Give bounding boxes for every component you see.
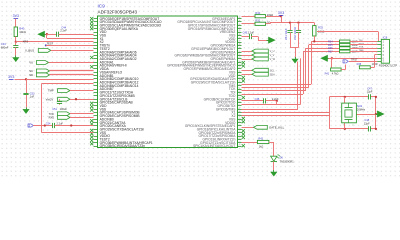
wire crystal pin2 stub (344, 123, 346, 129)
C41 rotated label (284, 28, 288, 40)
junction crystal bottom right (375, 128, 377, 130)
resistor R30 (255, 15, 266, 18)
junction C44 row (46, 33, 48, 35)
C47 name (367, 86, 372, 90)
wire IC to R42 (242, 142, 258, 144)
wire JTAG4 to resistor (303, 51, 340, 53)
wire 3V3 feed to connector (317, 32, 379, 42)
wire XRS row to IC (16, 41, 94, 43)
wire group box top (41, 83, 93, 85)
crystal SG9 (342, 103, 357, 127)
R32 value 0R (267, 21, 271, 25)
wire R37 to connector (350, 51, 377, 53)
wire JTAG2 horizontal (242, 87, 309, 89)
svg-text:49: 49 (238, 47, 240, 49)
wire R34 to connector (350, 41, 377, 43)
junction C54 right (70, 124, 72, 126)
IC9 left pin stubs (94, 19, 98, 147)
net label Vin/2V text (46, 97, 54, 101)
net label SC text (29, 69, 33, 73)
net flag Vin/2V (58, 97, 70, 101)
svg-text:Vin/2V: Vin/2V (46, 97, 54, 101)
capacitor C43 (13, 46, 18, 48)
ground arrow crystal (375, 111, 384, 117)
wire junction to C44 (47, 34, 57, 36)
net label RXD text (49, 116, 55, 120)
C51 name (52, 107, 57, 111)
junction C54 left (44, 124, 46, 126)
net label V_W (270, 58, 276, 61)
wire JTAG2 to resistor (309, 44, 340, 46)
wire IC to C45 (242, 36, 250, 38)
R40 name (19, 26, 25, 30)
net flag SCL (252, 68, 268, 72)
svg-text:3V3: 3V3 (13, 14, 19, 18)
C52 name (30, 92, 35, 96)
svg-text:74: 74 (238, 131, 240, 133)
svg-text:72: 72 (238, 125, 240, 127)
wire EMU0 vertical (300, 58, 302, 104)
resistor R38 (359, 66, 370, 69)
resistor R33 (313, 26, 316, 36)
connector IC8 body (381, 39, 389, 63)
svg-text:70: 70 (238, 118, 240, 120)
wire C42 down (298, 32, 300, 47)
svg-text:64: 64 (238, 98, 240, 100)
wire rail to R33 (314, 23, 316, 26)
supply +3V3 top-left (13, 14, 19, 18)
wire X2 to crystal box (242, 115, 330, 117)
wire crystal box left (329, 97, 331, 129)
capacitor C47 (369, 94, 371, 99)
junction crystal bottom stub (344, 128, 346, 130)
svg-text:SPICLKA/LINTXA/XCLKOUT: SPICLKA/LINTXA/XCLKOUT (193, 144, 235, 148)
wire IC to flag V_U (242, 51, 252, 53)
IC9 right pin stubs (238, 19, 242, 147)
net label SCL (270, 69, 275, 72)
wire LED to ground (273, 161, 275, 170)
wire IC to R30 (242, 16, 256, 18)
C44 value 2.2nF (60, 28, 67, 32)
net flag TMP (58, 89, 70, 93)
svg-text:78: 78 (238, 145, 240, 147)
wire IC to flag SCL (242, 70, 252, 72)
R35 value 100R (352, 44, 358, 47)
R42 value 1k (259, 145, 264, 148)
svg-text:55: 55 (238, 68, 240, 70)
capacitor C54 (53, 123, 55, 128)
C54 value 2.2uF (57, 123, 64, 126)
svg-text:2.2uF: 2.2uF (248, 32, 255, 35)
wire gnd to junction (46, 34, 47, 36)
svg-text:42: 42 (238, 24, 240, 26)
junction rail C42 (297, 21, 299, 23)
capacitor C51 (57, 102, 62, 104)
svg-text:60: 60 (238, 84, 240, 86)
wire gnd row to connector (329, 58, 378, 60)
svg-text:10kΩ: 10kΩ (19, 30, 26, 34)
capacitor C43 name (1, 42, 6, 46)
wire rail to C42 (298, 23, 300, 31)
svg-text:V_U: V_U (270, 50, 275, 53)
net flag VU (36, 61, 48, 65)
wire IC to flag SDA (242, 74, 252, 76)
wire crystal box top right (371, 96, 376, 98)
svg-text:C41 10uF: C41 10uF (284, 28, 288, 40)
no-connect marks left pins (90, 17, 93, 145)
SG9 value 20MHz (357, 107, 366, 111)
junction crystal top stub (344, 96, 346, 98)
R30 value 10k (267, 13, 273, 17)
wire EMU0 horizontal (242, 104, 301, 106)
svg-text:XRS: XRS (23, 39, 29, 43)
svg-text:SD: SD (29, 73, 33, 77)
resistor R36 (340, 47, 351, 50)
wire R35 to connector (350, 44, 377, 46)
junction crystal top right (375, 96, 377, 98)
wire C54 to IC (55, 125, 94, 127)
svg-text:R30: R30 (255, 11, 260, 15)
C46 name (255, 97, 260, 101)
svg-text:R32: R32 (255, 19, 260, 23)
wire IC to R32 (242, 23, 256, 25)
wire TRST to connector (349, 61, 377, 63)
wire EMU1 horizontal (242, 109, 298, 111)
svg-text:V_BUS: V_BUS (25, 48, 34, 52)
svg-text:54: 54 (238, 64, 240, 66)
resistor R32 (255, 22, 266, 25)
wire C44 to IC (59, 34, 94, 36)
wire IC to flag V_W (242, 59, 252, 61)
svg-text:V_W: V_W (270, 58, 276, 61)
C42 rotated label (293, 26, 297, 40)
svg-text:4.7kΩ: 4.7kΩ (332, 73, 339, 76)
wire IC to flag V_V (242, 55, 252, 57)
svg-text:50: 50 (238, 51, 240, 53)
svg-text:58: 58 (238, 78, 240, 80)
svg-text:68: 68 (238, 111, 240, 113)
wire JTAG4 horizontal (242, 94, 304, 96)
no-connect marks right pins (242, 61, 245, 147)
svg-text:GPIO35/SCIRXDA/SDAA/TZ3n: GPIO35/SCIRXDA/SDAA/TZ3n (100, 144, 146, 148)
supply +3V3 mid-left (8, 75, 14, 79)
svg-text:56: 56 (238, 71, 240, 73)
wire EMU1 vertical (297, 62, 299, 110)
microcontroller IC9 body (98, 16, 238, 148)
svg-text:46: 46 (238, 37, 240, 39)
wire JTAG1 to resistor (311, 41, 339, 43)
wire SD to IC (50, 74, 94, 76)
resistor R37 (340, 50, 351, 53)
C51 value 100uF (60, 107, 68, 111)
wire caps to ground (290, 48, 299, 58)
svg-text:TMP: TMP (48, 89, 54, 93)
net label GATE_KILL (269, 126, 285, 130)
wire R32 up to rail (266, 23, 271, 24)
svg-text:51: 51 (238, 54, 240, 56)
svg-text:SCL: SCL (270, 69, 275, 72)
junction crystal mid right (375, 113, 377, 115)
svg-text:77: 77 (238, 141, 240, 143)
wire 3V3 node down to rail (281, 16, 283, 22)
wire Vin2V stub to C51 (59, 99, 61, 105)
C52 value 1uF (30, 95, 35, 99)
wire JTAG3 to resistor (306, 48, 340, 50)
wire X1 to crystal box (242, 112, 330, 114)
wire JTAG1 horizontal (242, 84, 312, 86)
IC9 reference designator (98, 3, 106, 8)
svg-text:TN0209GR1: TN0209GR1 (280, 161, 295, 164)
net label V_BUS text (25, 48, 34, 52)
ground arrow right of C45 (267, 37, 276, 43)
wire RXD to IC (70, 117, 94, 119)
junction C46 (276, 100, 278, 102)
wire JTAG3 vertical (305, 48, 307, 91)
port flag 2 TRST (343, 60, 348, 64)
resistor R40 (14, 27, 17, 37)
wire JTAG3 horizontal (242, 90, 306, 92)
svg-text:63: 63 (238, 94, 240, 96)
svg-text:75: 75 (238, 135, 240, 137)
capacitor C46 (264, 98, 266, 103)
wire second reset row to IC (47, 38, 94, 40)
svg-text:ADF32F005GPB43: ADF32F005GPB43 (98, 9, 138, 14)
svg-text:62: 62 (238, 91, 240, 93)
wire crystal pin1 stub (344, 97, 346, 103)
net label TDO (359, 43, 364, 45)
net flag SDA (252, 72, 268, 76)
net label VU text (29, 61, 33, 65)
wire Vin2V to IC (70, 99, 94, 101)
net label V_U (270, 50, 275, 53)
svg-text:R38: R38 (357, 63, 362, 66)
svg-text:R42: R42 (258, 138, 263, 141)
R34 name (328, 40, 333, 43)
net label SD text (29, 73, 33, 77)
svg-text:71: 71 (238, 121, 240, 123)
wire TXD to IC (70, 113, 94, 115)
svg-text:GPIO29/SCITXDA/SCLA/TZ3n: GPIO29/SCITXDA/SCLA/TZ3n (100, 127, 145, 131)
junction R33 row (313, 40, 315, 42)
wire crystal out right (356, 114, 376, 116)
wire R38 to connector (370, 55, 377, 68)
net label TEST (47, 42, 54, 46)
wire IC to GATE_KILL flag (242, 127, 254, 129)
C46 value 2.2uF (272, 97, 279, 101)
svg-text:48: 48 (238, 44, 240, 46)
R36 value 100R (352, 47, 358, 50)
svg-text:C51: C51 (52, 107, 57, 111)
C47 value 12pF (367, 90, 373, 94)
wire 3V3 to R40 (15, 19, 17, 27)
R38 value 100R (372, 63, 378, 66)
wire C45 to ground arrow (251, 37, 268, 41)
wire crystal box top (329, 96, 368, 98)
svg-text:41: 41 (238, 21, 240, 23)
IC8 pin stubs (377, 42, 381, 62)
C48 value 12pF (364, 121, 370, 125)
R41 value 4.7k (332, 73, 339, 76)
R41 name (325, 73, 330, 76)
svg-text:61: 61 (238, 88, 240, 90)
wire VDD row to IC (26, 79, 94, 81)
svg-text:73: 73 (238, 128, 240, 130)
net flag V_U (252, 49, 268, 53)
svg-text:IC8: IC8 (383, 35, 388, 39)
wire group box left (41, 84, 43, 132)
svg-text:43: 43 (238, 27, 240, 29)
R42 name (258, 138, 263, 141)
wire R41 right up (341, 65, 345, 70)
C43 value 680nF (1, 45, 9, 49)
IC8 pin numbers (383, 42, 385, 64)
IC9 right pin numbers (238, 17, 240, 146)
svg-text:RXD: RXD (49, 116, 55, 120)
wire R30 to 3V3 node (266, 16, 282, 18)
svg-text:GPIO7/EPWM4B/SCIRXDA/ECAP2: GPIO7/EPWM4B/SCIRXDA/ECAP2 (184, 67, 236, 71)
resistor R35 (340, 43, 351, 46)
net label TMP text (48, 89, 54, 93)
svg-text:R37: R37 (328, 50, 333, 53)
net label TDI (359, 40, 363, 42)
R30 name (255, 11, 260, 15)
ground arrow TRST row (321, 55, 331, 61)
svg-text:R33: R33 (318, 26, 323, 30)
wire C46 junction down (276, 101, 278, 105)
capacitor C48 (369, 126, 371, 131)
R33 value 10k (318, 30, 324, 34)
wire TMP to IC (70, 90, 94, 92)
IC8 value FID04DCTLCTP (379, 65, 398, 68)
wire group box bottom (41, 132, 93, 134)
wire junction down to C52 (26, 79, 28, 93)
C44 name (61, 26, 66, 30)
ground below LED (271, 170, 277, 176)
wire SC to IC (50, 70, 94, 72)
net flag GATE_KILL (254, 125, 268, 129)
R34 value 100R (352, 40, 358, 43)
net label SDA (270, 73, 275, 76)
svg-text:C54: C54 (46, 123, 51, 126)
C45 name (243, 32, 248, 35)
C45 value 2.2uF (248, 32, 255, 35)
wire 3V3 rail (270, 22, 314, 24)
svg-text:12pF: 12pF (367, 90, 373, 94)
svg-text:47: 47 (238, 41, 240, 43)
IC9 left pin names (100, 17, 162, 148)
wire junction down to R41 (331, 58, 333, 69)
net flag TXD (58, 112, 71, 116)
node TEST diamond (45, 44, 47, 46)
net label V_V (270, 54, 275, 57)
svg-text:2.2nF: 2.2nF (60, 28, 67, 32)
svg-text:40: 40 (238, 17, 240, 19)
capacitor C42 (296, 31, 301, 33)
capacitor C41 (287, 31, 292, 33)
D6 name (280, 156, 284, 159)
IC9 value ADF32F005GPB43 (98, 9, 138, 14)
R32 name (255, 19, 260, 23)
svg-text:76: 76 (238, 138, 240, 140)
junction R30 3V3 (280, 15, 282, 17)
net flag SC (36, 69, 49, 73)
wire IC to C46 (242, 100, 264, 102)
ground below C41 C42 (292, 57, 298, 63)
svg-text:680nF: 680nF (1, 45, 9, 49)
svg-text:3V3: 3V3 (8, 75, 14, 79)
R35 name (328, 44, 333, 47)
wire C52 to ground (26, 95, 28, 108)
wire R33 to row (314, 36, 316, 41)
ground arrow left of C44 row (38, 31, 48, 37)
svg-text:TXD: TXD (49, 112, 54, 116)
IC9 right pin names (167, 17, 236, 148)
R40 value 10k (19, 30, 26, 34)
wire JTAG1 vertical (311, 41, 313, 84)
svg-text:59: 59 (238, 81, 240, 83)
wire junction down (46, 34, 48, 38)
wire 3V3 to junction (15, 79, 27, 81)
svg-text:20MHz: 20MHz (357, 107, 366, 111)
wire R42 to LED (269, 142, 274, 156)
svg-text:100uF: 100uF (60, 107, 68, 111)
C54 name (46, 123, 51, 126)
wire port to C54 (33, 125, 53, 127)
junction rail C41 (289, 21, 291, 23)
wire TEST row to IC (46, 45, 94, 47)
junction TRST row (331, 57, 333, 59)
R37 name (328, 50, 333, 53)
wire crystal box bottom right (371, 128, 376, 130)
wire VU to IC (49, 62, 94, 64)
svg-text:45: 45 (238, 34, 240, 36)
net flag V_V (252, 53, 268, 57)
wire V_BUS to IC (51, 50, 94, 52)
net flag RXD (58, 116, 71, 120)
svg-text:VU: VU (29, 61, 33, 65)
svg-text:44: 44 (238, 31, 240, 33)
svg-text:69: 69 (238, 114, 240, 116)
R36 name (328, 47, 333, 50)
junction Vin2V (75, 98, 77, 100)
net label TMS (359, 50, 364, 52)
net flag V_W (252, 57, 268, 61)
resistor R42 (257, 140, 269, 143)
capacitor C52 (23, 94, 28, 95)
svg-text:57: 57 (238, 74, 240, 76)
svg-text:FID04DCTLCTP: FID04DCTLCTP (379, 65, 398, 68)
wire C46 to junction (266, 100, 277, 102)
net flag V_BUS (38, 49, 51, 53)
svg-text:R41: R41 (325, 73, 330, 76)
ground below C52 (23, 107, 29, 113)
junction VDD row (25, 78, 27, 80)
LED D6 (271, 154, 281, 161)
R33 name (318, 26, 323, 30)
svg-text:3V3: 3V3 (278, 11, 284, 15)
wire C41 down (290, 32, 292, 47)
wire C43 to ground (15, 47, 17, 55)
net label XRS (23, 39, 29, 43)
net label TCK (359, 47, 364, 49)
svg-text:65: 65 (238, 101, 240, 103)
wire rail to C41 (290, 23, 292, 31)
D6 value TN0209GR1 (280, 161, 295, 164)
wire crystal box right (375, 97, 377, 129)
svg-text:52: 52 (238, 57, 240, 59)
svg-text:GATE_KILL: GATE_KILL (269, 126, 285, 130)
SG9 name (357, 104, 363, 108)
